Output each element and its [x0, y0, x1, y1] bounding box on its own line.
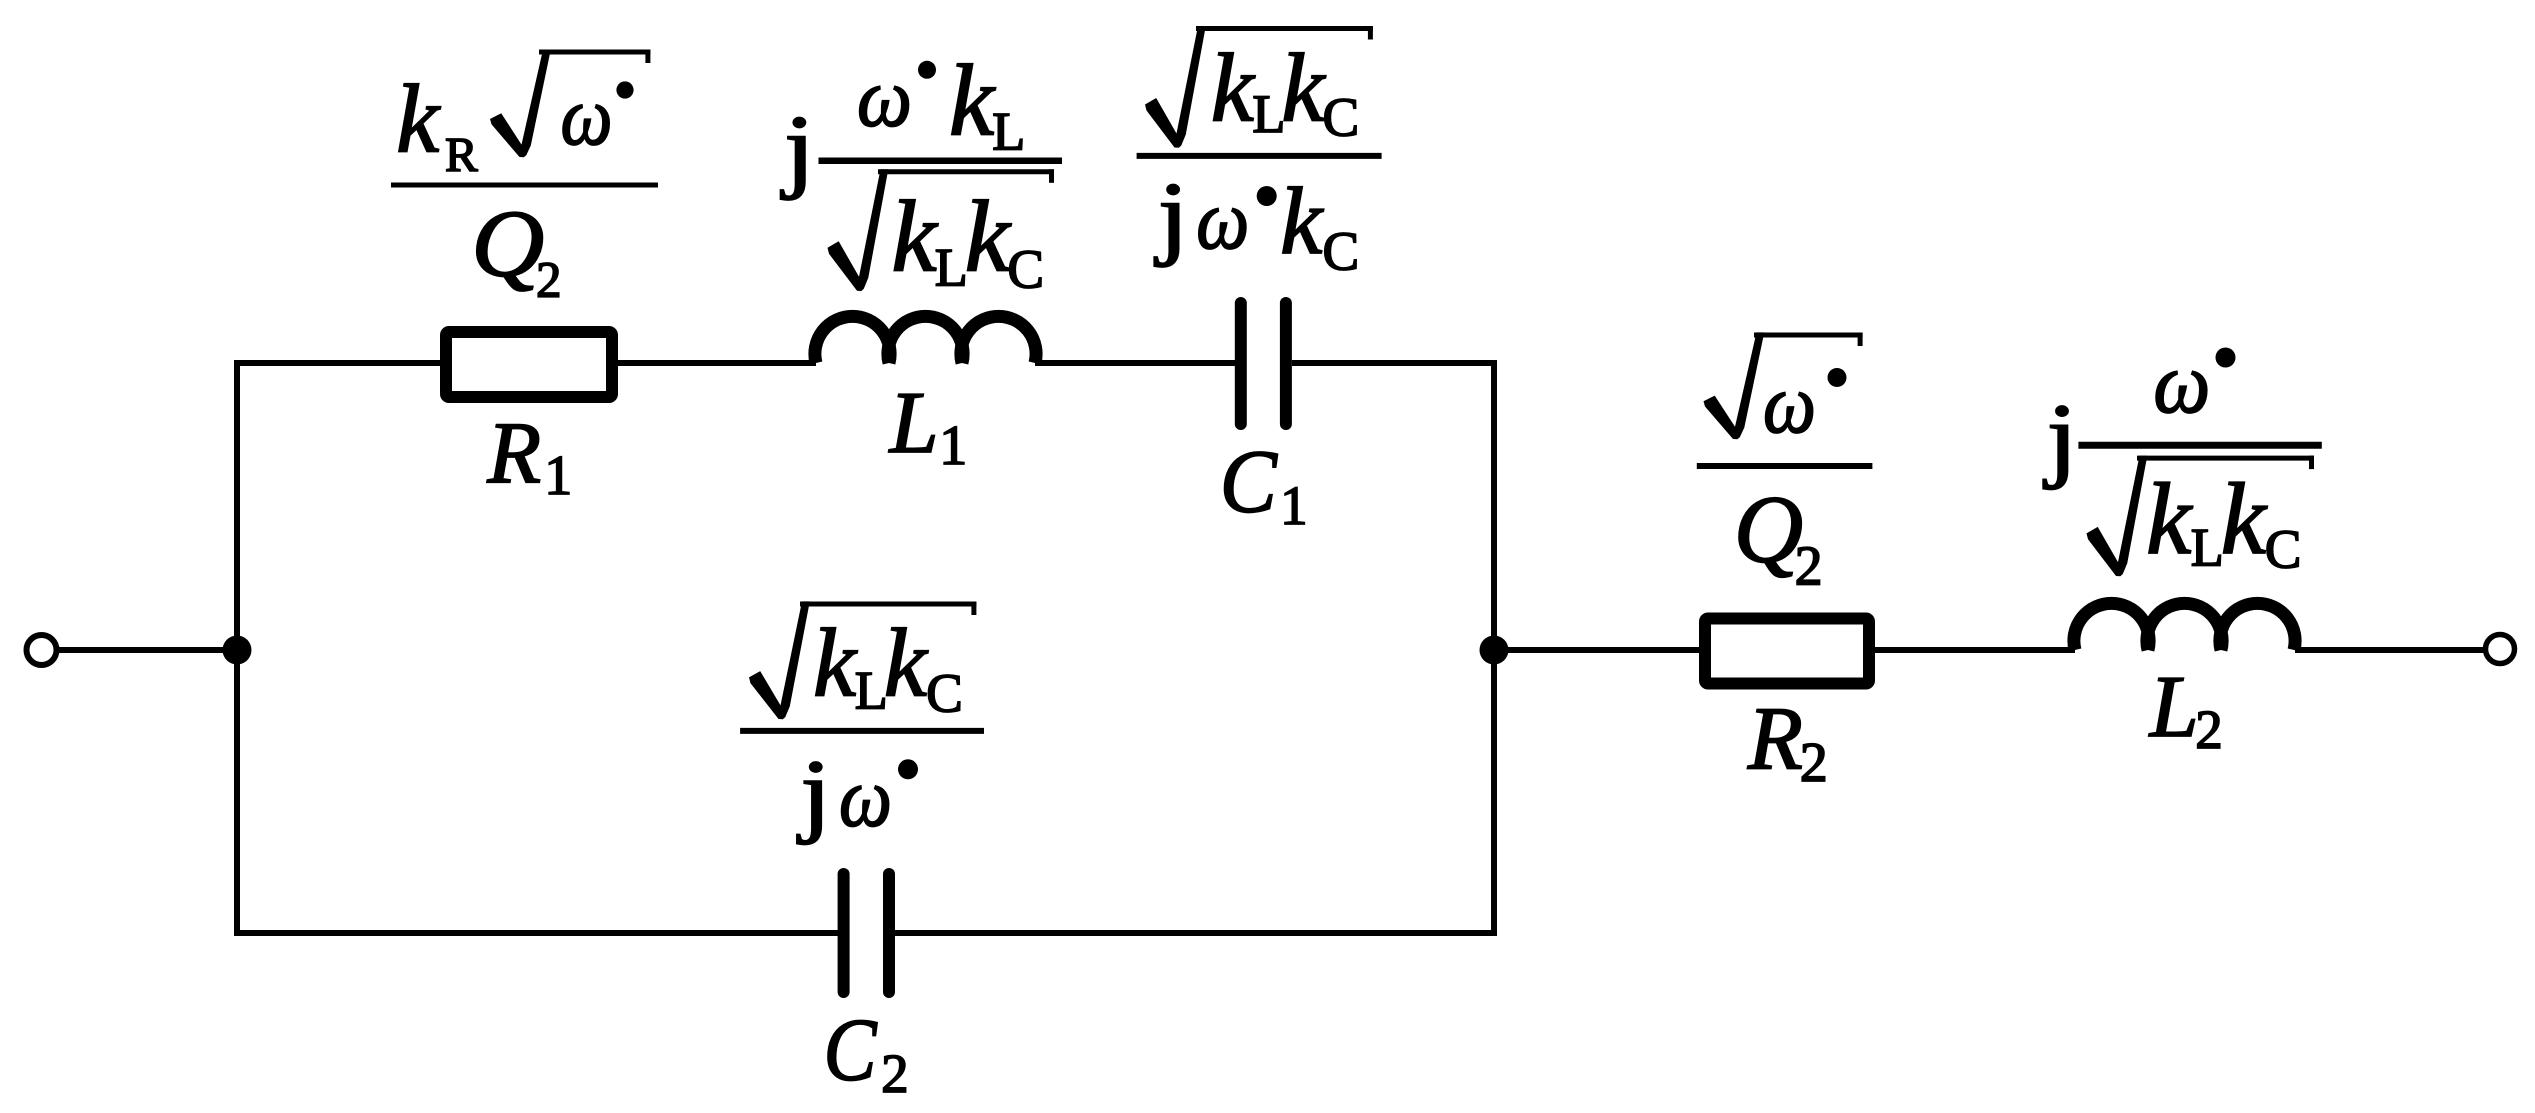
svg-text:C: C [824, 1002, 878, 1100]
svg-text:1: 1 [939, 415, 967, 477]
svg-text:2: 2 [881, 1043, 909, 1104]
svg-text:k: k [965, 181, 1012, 294]
svg-text:C: C [1323, 87, 1360, 148]
svg-text:j: j [2043, 384, 2078, 490]
svg-text:k: k [813, 609, 858, 716]
svg-text:C: C [1220, 433, 1278, 532]
svg-text:C: C [1007, 239, 1044, 300]
svg-text:k: k [1211, 34, 1256, 141]
svg-text:ω: ω [857, 51, 912, 144]
svg-text:C: C [1323, 221, 1360, 282]
svg-text:ω: ω [1763, 357, 1816, 451]
svg-text:C: C [926, 663, 963, 724]
svg-text:Q: Q [471, 190, 544, 296]
svg-text:k: k [949, 44, 996, 157]
svg-text:ω: ω [839, 751, 892, 845]
svg-text:k: k [1280, 168, 1324, 274]
svg-text:C: C [2265, 519, 2302, 580]
svg-text:k: k [884, 609, 929, 716]
svg-text:1: 1 [1280, 475, 1308, 536]
svg-text:L: L [2191, 517, 2224, 577]
svg-text:ω: ω [1196, 173, 1249, 267]
svg-text:R: R [486, 406, 541, 503]
svg-text:j: j [797, 742, 832, 846]
svg-text:R: R [1747, 690, 1803, 789]
svg-text:2: 2 [1795, 536, 1823, 598]
svg-text:L: L [2148, 659, 2199, 756]
svg-text:ω: ω [561, 70, 613, 163]
svg-text:2: 2 [2195, 699, 2223, 760]
svg-text:j: j [1154, 164, 1189, 268]
svg-text:j: j [780, 97, 815, 201]
svg-text:ω: ω [2153, 334, 2210, 431]
svg-text:k: k [396, 65, 441, 172]
svg-text:k: k [2146, 463, 2193, 576]
svg-text:L: L [888, 375, 939, 472]
svg-text:Q: Q [1734, 476, 1803, 583]
svg-text:k: k [891, 181, 938, 294]
svg-text:R: R [445, 127, 478, 182]
svg-text:k: k [1281, 34, 1326, 141]
svg-text:1: 1 [544, 445, 572, 507]
svg-text:L: L [992, 101, 1025, 161]
svg-text:L: L [935, 237, 968, 297]
svg-text:k: k [2221, 463, 2268, 576]
svg-text:2: 2 [536, 253, 562, 309]
svg-text:2: 2 [1800, 732, 1828, 794]
